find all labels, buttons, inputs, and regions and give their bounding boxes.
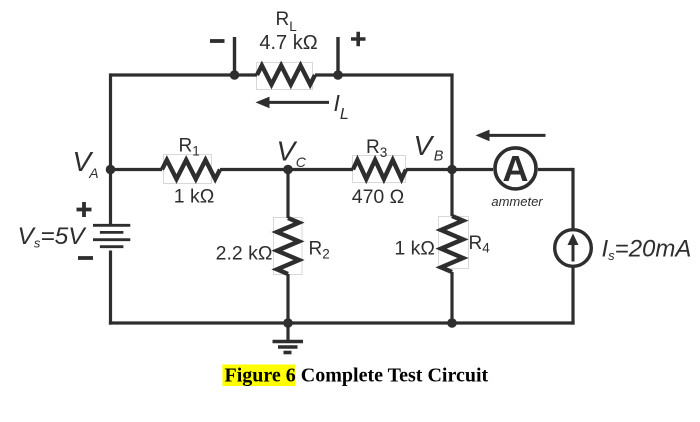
wire left vertical upper (top rail to node A): [109, 73, 112, 224]
junction dot node A: [106, 165, 116, 175]
svg-text:Is=20mA: Is=20mA: [602, 236, 692, 264]
junction dot node C: [283, 165, 293, 175]
svg-text:ammeter: ammeter: [491, 194, 543, 209]
arrow IL: [256, 97, 330, 109]
current source arrow: [568, 234, 579, 262]
probe tick right (plus terminal of RL): [336, 37, 339, 75]
junction dot top left: [230, 70, 240, 80]
wire ammeter to right corner: [538, 168, 573, 171]
svg-text:1 kΩ: 1 kΩ: [174, 186, 215, 208]
selection box around RL: [257, 63, 313, 90]
wire left vertical lower (battery to bottom rail): [109, 251, 112, 325]
arrow into ammeter: [476, 130, 546, 142]
wire middle rail R3 to ammeter: [406, 168, 493, 171]
probe tick left (minus terminal of RL): [233, 37, 236, 75]
ground: [273, 323, 304, 353]
resistor RL zigzag: [257, 66, 315, 85]
svg-text:4.7 kΩ: 4.7 kΩ: [259, 32, 317, 54]
wire top rail left segment: [111, 73, 258, 76]
wire right vertical upper (corner to current source): [571, 168, 574, 229]
junction dot bottom R4: [447, 318, 457, 328]
wire VC branch lower (R2 to bottom rail): [286, 274, 289, 323]
resistor R4 zigzag: [441, 216, 463, 272]
wire right vertical lower (current source to bottom rail): [571, 267, 574, 325]
resistor R1 zigzag: [162, 160, 220, 179]
wire top rail right segment: [315, 73, 454, 76]
selection box around R4: [439, 217, 469, 269]
wire middle rail R1 to R3: [220, 168, 353, 171]
caption highlight: [222, 365, 295, 387]
selection box around R2: [274, 218, 303, 275]
wire middle rail VA to R1: [111, 168, 163, 171]
resistor R2 zigzag: [277, 218, 299, 274]
svg-text:1 kΩ: 1 kΩ: [394, 238, 435, 260]
plus sign at RL right: [351, 32, 366, 46]
minus sign at RL left: [210, 39, 225, 43]
wire VB to R4: [450, 170, 453, 217]
wire VC branch upper: [286, 170, 289, 219]
battery plus sign: [77, 202, 92, 217]
selection box around R1: [164, 155, 212, 184]
svg-text:470 Ω: 470 Ω: [352, 186, 405, 208]
junction dot bottom center (ground): [283, 318, 293, 328]
resistor R3 zigzag: [353, 160, 406, 179]
svg-text:A: A: [503, 148, 529, 189]
battery minus sign: [78, 256, 93, 260]
wire R4 to bottom rail: [450, 272, 453, 323]
svg-text:Vs=5V: Vs=5V: [18, 223, 88, 251]
selection box around R3: [353, 156, 406, 183]
wire VB branch (top rail corner down to node B): [450, 75, 453, 170]
svg-text:Figure 6 Complete Test Circuit: Figure 6 Complete Test Circuit: [225, 365, 489, 387]
battery VS plates: [93, 225, 130, 246]
current source IS circle: [555, 230, 592, 267]
junction dot node B: [447, 165, 457, 175]
wire bottom rail: [109, 321, 575, 324]
ammeter U1 circle: [495, 148, 536, 189]
junction dot top right: [333, 70, 343, 80]
svg-text:2.2 kΩ: 2.2 kΩ: [216, 243, 273, 265]
